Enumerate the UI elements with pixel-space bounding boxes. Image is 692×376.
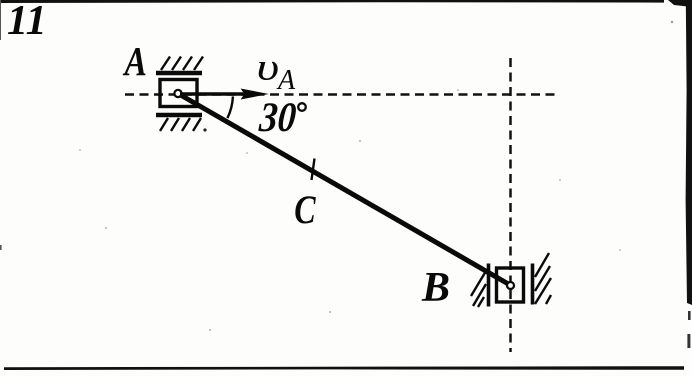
horizontal dashed guide line through A	[125, 93, 555, 96]
left edge dot	[0, 245, 2, 250]
svg-text:30: 30	[257, 94, 298, 141]
svg-text:υ: υ	[257, 46, 280, 88]
slider B box	[497, 268, 524, 302]
pin A	[174, 90, 181, 97]
right border strip	[686, 0, 692, 305]
slider B right hatching	[535, 253, 551, 304]
slider B right guide line	[531, 264, 535, 305]
slider A bottom hatching	[160, 118, 201, 131]
rod AB	[178, 94, 511, 286]
top border line	[0, 0, 664, 3]
bottom border line	[4, 366, 684, 370]
svg-text:C: C	[294, 188, 316, 232]
svg-text:11: 11	[7, 0, 47, 44]
angle arc 30 degrees	[227, 96, 233, 118]
vertical dashed guide line through B	[509, 58, 512, 352]
slider A top hatching	[161, 57, 203, 71]
slider A top support line	[156, 71, 202, 75]
slider B left hatching	[471, 271, 486, 307]
svg-text:B: B	[421, 265, 450, 311]
top-right corner blob	[668, 0, 692, 7]
right border lower marks	[688, 311, 691, 320]
scan speckles	[79, 21, 673, 331]
degree symbol of 30	[298, 103, 306, 111]
velocity arrow vA shaft	[180, 92, 245, 95]
scan dot near slider A	[203, 128, 206, 131]
left edge scan mark	[0, 0, 1, 40]
midpoint tick at C	[312, 159, 315, 181]
slider A bottom support line	[156, 113, 202, 117]
velocity arrow vA head	[241, 89, 269, 100]
pin B	[507, 282, 514, 289]
svg-text:A: A	[123, 40, 147, 85]
slider A box	[160, 80, 197, 107]
svg-text:A: A	[276, 65, 296, 96]
slider B left guide line	[487, 264, 491, 307]
